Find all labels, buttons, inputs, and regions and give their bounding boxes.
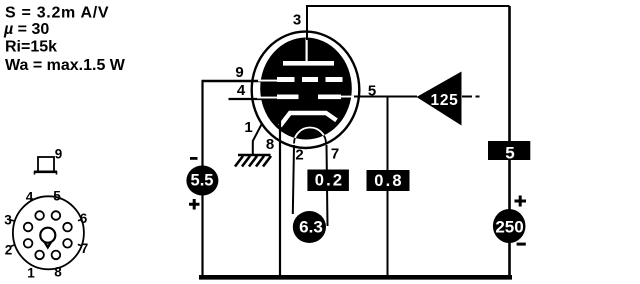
svg-text:3: 3 <box>4 213 12 228</box>
polarity plus of battery 5.5 <box>189 199 200 210</box>
svg-text:5: 5 <box>505 144 514 163</box>
wire grid input pin 4 <box>229 98 263 100</box>
wire bottom rail <box>199 275 512 280</box>
svg-text:1: 1 <box>27 266 35 281</box>
wire left rail from pin 9 <box>201 81 203 277</box>
svg-text:250: 250 <box>495 218 523 237</box>
svg-text:S = 3.2m A/V: S = 3.2m A/V <box>5 5 109 22</box>
wire top rail <box>307 5 510 7</box>
tube V1 envelope <box>252 32 360 148</box>
socket spigot with key <box>40 228 55 248</box>
wire screen branch to 0.8 box <box>387 97 389 278</box>
heater supply 6.3 <box>293 211 326 243</box>
svg-text:7: 7 <box>331 146 339 163</box>
svg-text:4: 4 <box>26 190 34 205</box>
svg-text:4: 4 <box>237 82 246 99</box>
battery B1 5.5 <box>186 166 218 196</box>
svg-text:7: 7 <box>81 241 89 256</box>
socket pin holes <box>24 211 72 259</box>
wire heater pin 7 <box>327 145 328 226</box>
svg-text:8: 8 <box>54 265 62 280</box>
resistor box 0.2 <box>307 170 349 192</box>
tube V1 grid row g1 <box>257 95 354 100</box>
svg-text:0.2: 0.2 <box>315 172 345 190</box>
socket ticks <box>10 219 83 247</box>
polarity plus of HT supply <box>515 196 527 207</box>
resistor box 0.8 <box>367 170 410 191</box>
wire pin 3 to top rail <box>306 5 308 40</box>
output arrow 125 <box>417 72 462 126</box>
svg-text:5.5: 5.5 <box>191 172 214 190</box>
resistor box 5 <box>488 141 530 163</box>
svg-text:6.3: 6.3 <box>299 218 323 237</box>
wire output stub <box>462 96 480 98</box>
wire pin 1 to ground <box>253 124 262 156</box>
tube V1 cathode <box>280 113 337 126</box>
svg-text:1: 1 <box>244 119 252 136</box>
svg-text:0.8: 0.8 <box>374 172 404 190</box>
svg-text:Wa = max.1.5 W: Wa = max.1.5 W <box>5 57 126 74</box>
HT supply 250 <box>493 209 526 243</box>
wire pin 9 horizontal <box>202 80 263 82</box>
tube V1 grid row g3 <box>258 77 343 82</box>
ground <box>235 155 271 167</box>
tube V1 anode lead <box>306 39 308 63</box>
svg-text:3: 3 <box>293 12 301 29</box>
svg-text:5: 5 <box>53 189 61 204</box>
svg-text:2: 2 <box>295 147 303 164</box>
wire HT rail right <box>508 6 511 277</box>
tube V1 heater arc outside envelope <box>294 128 326 144</box>
tube V1 anode plate <box>283 61 334 66</box>
svg-text:µ = 30: µ = 30 <box>3 21 49 38</box>
socket outline <box>13 196 84 269</box>
svg-text:Ri=15k: Ri=15k <box>5 39 57 56</box>
svg-text:125: 125 <box>431 92 459 109</box>
svg-text:2: 2 <box>5 243 13 258</box>
tube V1 heater arc <box>294 128 326 144</box>
polarity minus of battery 5.5 <box>190 157 198 160</box>
svg-text:9: 9 <box>55 147 63 162</box>
wire anode pin 5 to arrow <box>350 96 417 98</box>
svg-text:8: 8 <box>266 136 274 153</box>
svg-text:9: 9 <box>235 64 243 81</box>
wire pin 8 cathode to bottom rail <box>279 115 281 277</box>
shield symbol pin 9 <box>34 157 57 175</box>
polarity minus of HT supply <box>517 243 526 246</box>
wire heater pin 2 <box>293 145 294 214</box>
svg-text:6: 6 <box>80 211 88 226</box>
svg-text:5: 5 <box>368 83 376 100</box>
